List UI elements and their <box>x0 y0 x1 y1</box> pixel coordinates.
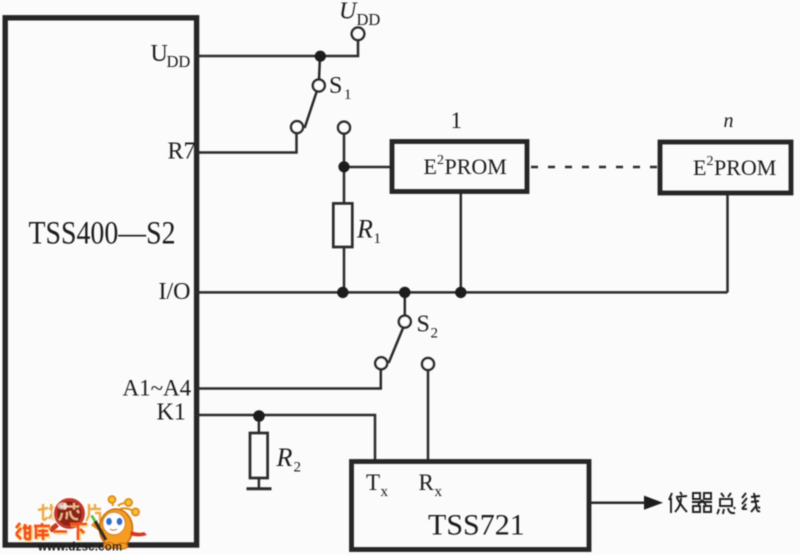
svg-text:R: R <box>276 443 293 472</box>
svg-text:DD: DD <box>357 10 381 29</box>
svg-text:PROM: PROM <box>714 155 776 180</box>
svg-text:E: E <box>693 155 706 180</box>
svg-text:PROM: PROM <box>445 154 507 179</box>
svg-text:S: S <box>417 312 430 338</box>
svg-text:TSS721: TSS721 <box>428 509 525 542</box>
svg-text:DD: DD <box>167 52 191 71</box>
svg-text:x: x <box>381 484 389 500</box>
svg-text:I/O: I/O <box>159 279 191 305</box>
svg-text:TSS400—S2: TSS400—S2 <box>29 216 176 252</box>
svg-text:A1~A4: A1~A4 <box>123 376 192 401</box>
svg-text:1: 1 <box>451 108 463 133</box>
svg-text:K1: K1 <box>157 400 186 426</box>
svg-text:1: 1 <box>374 231 382 247</box>
svg-text:R: R <box>356 215 373 244</box>
svg-text:R: R <box>419 470 435 495</box>
svg-text:2: 2 <box>431 326 439 342</box>
svg-text:R7: R7 <box>168 139 196 165</box>
svg-text:x: x <box>435 484 443 500</box>
svg-text:2: 2 <box>294 460 302 476</box>
svg-text:U: U <box>339 0 358 25</box>
svg-text:S: S <box>329 73 342 99</box>
svg-text:2: 2 <box>437 153 444 168</box>
svg-text:1: 1 <box>344 87 352 103</box>
svg-text:2: 2 <box>707 154 714 169</box>
svg-text:n: n <box>724 110 734 132</box>
svg-text:www.dzsc.com: www.dzsc.com <box>37 542 122 554</box>
svg-text:T: T <box>366 470 380 495</box>
svg-text:E: E <box>424 154 437 179</box>
svg-text:U: U <box>151 41 168 67</box>
